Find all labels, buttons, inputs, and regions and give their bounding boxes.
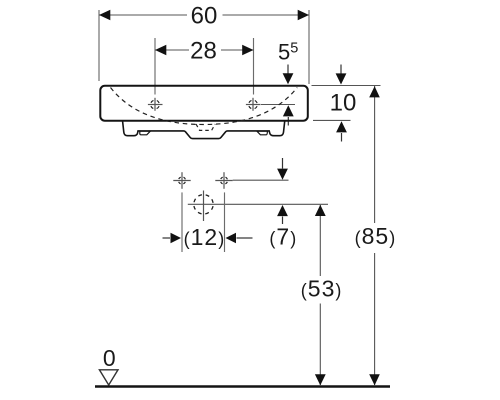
dimension 60 extension line left <box>98 10 100 81</box>
dimension 10 down arrow <box>340 65 342 74</box>
tap hole left crosshair <box>148 98 163 111</box>
datum 0 triangle <box>99 370 118 385</box>
floor line <box>95 385 390 387</box>
dimension 5.5 up arrow <box>283 105 294 116</box>
wall clip left <box>140 131 151 135</box>
dimension 10 up arrow <box>336 121 347 132</box>
dimension 28 arrow right <box>242 45 253 56</box>
dimension 60 arrow left <box>99 10 110 21</box>
basin outline <box>100 86 307 121</box>
dimension 7 up arrow <box>277 205 288 216</box>
dimension 85 line lower <box>374 253 376 385</box>
svg-text:10: 10 <box>330 90 357 117</box>
dimension 28 extension line right <box>253 38 255 95</box>
dimension 53 line lower <box>319 304 321 386</box>
tap hole level reference line <box>261 104 295 106</box>
dimension 85 line upper <box>374 86 376 223</box>
dimension 28 line <box>155 49 189 51</box>
apron outline <box>123 121 285 138</box>
drain level reference line <box>188 203 328 205</box>
dimension 10 bottom reference line <box>313 119 351 121</box>
drain hole dashed circle <box>194 195 213 214</box>
dimension 53 up arrow <box>315 205 326 216</box>
dimension 12 left arrow <box>163 237 171 239</box>
dimension 28 extension line left <box>154 38 156 95</box>
dimension 85 up arrow <box>369 86 380 97</box>
dimension 10 top reference line <box>312 85 381 87</box>
drain funnel hidden dashed outline <box>196 124 215 130</box>
dimension 28 arrow left <box>155 45 166 56</box>
dimension 12 extension line right <box>224 192 226 252</box>
basin bowl hidden dashed curve <box>111 88 298 125</box>
fixing hole left crosshair <box>173 172 190 189</box>
dimension 5.5 down arrow <box>287 65 289 74</box>
dimension 60 extension line right <box>308 10 310 84</box>
svg-text:0: 0 <box>103 345 116 371</box>
dimension 7 down arrow <box>282 158 284 169</box>
dimension 85 down arrow <box>369 374 380 385</box>
fixing hole level reference line <box>233 179 289 181</box>
dimension 60 line <box>99 14 187 16</box>
tap hole right crosshair <box>246 98 261 111</box>
dimension 12 right arrow <box>226 233 237 244</box>
svg-text:60: 60 <box>191 3 218 30</box>
wall clip right <box>257 131 268 135</box>
svg-text:28: 28 <box>190 38 217 65</box>
dimension 12 extension line left <box>181 192 183 252</box>
dimension 53 down arrow <box>315 374 326 385</box>
drain hole crosshair vertical <box>203 191 205 222</box>
fixing hole right crosshair <box>215 172 232 189</box>
dimension 60 arrow right <box>298 10 309 21</box>
dimension 53 line upper <box>319 205 321 276</box>
